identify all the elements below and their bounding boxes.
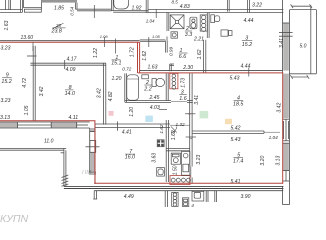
vent shaft icon room7 — [157, 140, 164, 147]
gray fill left exterior wall segments — [90, 128, 94, 172]
radiator under window left wall — [90, 141, 96, 153]
bottom strip piers — [205, 191, 207, 202]
wall under bath double — [111, 9, 148, 11]
wall room3 bottom right — [187, 100, 193, 102]
svg-text:11.0: 11.0 — [44, 138, 54, 144]
svg-text:4.41: 4.41 — [122, 129, 132, 135]
cabinet below strip — [182, 198, 188, 207]
kitchen sink room7 — [157, 168, 165, 177]
wall bottom strip line — [94, 190, 283, 192]
room label underlines — [2, 23, 252, 157]
red right boundary — [282, 73, 284, 184]
svg-text:1.6: 1.6 — [179, 96, 186, 102]
wall room9-room8 divider — [32, 46, 34, 121]
red shaft box kitchen — [170, 176, 190, 185]
svg-text:3.13: 3.13 — [0, 115, 10, 121]
svg-text:1.06: 1.06 — [100, 34, 109, 39]
washer neighbor — [171, 32, 177, 38]
svg-text:3.41: 3.41 — [194, 95, 200, 105]
towel coil neighbor — [200, 15, 207, 31]
shower tray neighbor — [170, 15, 184, 29]
svg-text:2.45: 2.45 — [149, 95, 160, 101]
svg-text:5.42: 5.42 — [231, 125, 241, 131]
balcony hatch marks — [62, 175, 69, 178]
svg-text:3.13: 3.13 — [276, 156, 282, 166]
svg-text:3.42: 3.42 — [277, 103, 283, 113]
svg-text:1.32: 1.32 — [176, 122, 186, 127]
left wall window sills — [90, 131, 95, 133]
wall above-unit WC top black — [140, 39, 166, 41]
svg-text:14.0: 14.0 — [65, 91, 75, 97]
svg-text:4: 4 — [191, 203, 194, 208]
svg-text:2.2: 2.2 — [143, 87, 151, 93]
wall neighbor bathroom left vertical with door gap — [166, 13, 168, 32]
wall WC left — [124, 73, 126, 102]
toilet neighbor right — [211, 15, 215, 23]
wall neighbor bathroom top double — [148, 8, 283, 10]
wall right of bath pair — [145, 0, 147, 13]
coil in red shaft — [172, 74, 176, 78]
svg-text:1.05: 1.05 — [24, 105, 30, 115]
svg-text:4.82: 4.82 — [108, 91, 114, 101]
bottom strip left room walls — [93, 191, 95, 199]
black companion lines of boundary — [0, 41, 283, 191]
svg-text:2.21: 2.21 — [193, 37, 204, 43]
svg-text:0.72: 0.72 — [122, 66, 132, 71]
wall neighbor floor double line — [0, 9, 22, 11]
svg-text:1.92: 1.92 — [132, 5, 142, 11]
svg-text:1.04: 1.04 — [269, 135, 279, 140]
left exterior wall outer edge — [89, 128, 91, 172]
svg-text:4.83: 4.83 — [180, 4, 190, 10]
red left vertical room7 — [94, 121, 96, 184]
svg-text:1.62: 1.62 — [159, 124, 164, 134]
svg-text:8.5: 8.5 — [172, 0, 179, 5]
wall top-left boundary black — [0, 40, 140, 42]
svg-text:1.62: 1.62 — [197, 49, 203, 59]
gray fill bottom band segments — [0, 122, 77, 127]
wall neighbor vertical pair — [8, 0, 10, 10]
svg-text:15.2: 15.2 — [242, 42, 252, 48]
wall niche right edge pair — [75, 3, 77, 10]
svg-text:1.73: 1.73 — [181, 78, 187, 88]
svg-text:3.20: 3.20 — [260, 156, 266, 166]
svg-text:4.17: 4.17 — [67, 57, 77, 63]
wall rooms 4-5 left long — [189, 73, 191, 166]
wall WC-room3 bottom — [125, 100, 171, 102]
colored furniture squares — [109, 111, 114, 116]
door opening room6 thin line — [170, 124, 190, 126]
wall neighbor pier top — [226, 0, 228, 12]
svg-text:КУПN: КУПN — [0, 213, 29, 225]
red apartment boundary — [0, 42, 283, 184]
svg-text:3.3: 3.3 — [185, 32, 192, 38]
sink neighbor — [190, 17, 197, 29]
bathtub neighbor top — [114, 0, 129, 9]
wall hall bottom / room7 top — [95, 123, 170, 125]
svg-text:5.41: 5.41 — [231, 179, 241, 185]
dimension ticks — [33, 5, 249, 137]
svg-text:1.62: 1.62 — [171, 130, 177, 140]
balcony left top edge — [0, 147, 66, 149]
left exterior wall inner edge room7 — [94, 124, 96, 184]
tick on divider — [27, 55, 37, 57]
wall neighbor box edge — [22, 0, 24, 8]
svg-text:15.2: 15.2 — [1, 79, 11, 85]
tick on room7 top wall — [117, 122, 119, 131]
right exterior wall edges — [282, 0, 284, 73]
svg-text:15.1: 15.1 — [111, 61, 121, 67]
red vertical jog pair — [137, 42, 139, 73]
svg-text:3.42: 3.42 — [39, 86, 45, 96]
svg-text:4.09: 4.09 — [66, 67, 76, 73]
wall room4-room5 divider — [192, 130, 264, 132]
svg-text:1.72: 1.72 — [130, 47, 136, 57]
svg-text:4.72: 4.72 — [22, 78, 28, 88]
svg-text:4.11: 4.11 — [69, 115, 79, 121]
wall pier above-unit — [164, 41, 166, 53]
svg-text:1.05: 1.05 — [152, 34, 161, 39]
svg-text:4.44: 4.44 — [241, 64, 251, 70]
svg-text:5.0: 5.0 — [300, 44, 307, 50]
svg-text:23.8: 23.8 — [51, 29, 62, 35]
red bottom boundary — [94, 182, 283, 184]
kitchen washer — [171, 153, 180, 164]
red top-left boundary — [0, 41, 140, 43]
svg-text:4.03: 4.03 — [150, 105, 160, 111]
wall WC right — [165, 73, 167, 101]
sink below strip — [192, 191, 204, 201]
red top-right boundary — [138, 72, 284, 74]
wall neighbor pier top right — [247, 0, 249, 13]
door room5 thin — [264, 131, 280, 133]
balcony left right edge — [63, 148, 65, 186]
balcony right top outline — [290, 9, 317, 11]
svg-text:6.6: 6.6 — [179, 54, 186, 60]
svg-text:1.20: 1.20 — [112, 76, 122, 82]
gray fill right exterior wall segments — [283, 23, 289, 171]
svg-text:3.23: 3.23 — [1, 46, 11, 52]
svg-text:5.43: 5.43 — [231, 137, 241, 143]
svg-text:3.90: 3.90 — [241, 194, 251, 200]
svg-text:1.63: 1.63 — [4, 20, 10, 30]
wall under niche double — [76, 8, 112, 10]
svg-text:1.20: 1.20 — [129, 107, 135, 117]
kitchen column stove — [182, 151, 190, 175]
svg-text:5.43: 5.43 — [230, 75, 240, 81]
door room3 thin — [171, 101, 187, 103]
right wall window sills — [283, 118, 290, 120]
red dash on wall marker — [188, 113, 191, 115]
wall room8 top — [30, 62, 106, 64]
svg-text:18.5: 18.5 — [233, 101, 243, 107]
svg-text:3.22: 3.22 — [252, 2, 262, 8]
red left-bottom boundary rooms 9-8 — [0, 120, 95, 122]
wall niche left edge — [41, 0, 43, 9]
svg-text:3.41: 3.41 — [279, 38, 285, 48]
strikethrough room 38 — [53, 27, 66, 29]
wall bottom boundary black pair — [64, 185, 284, 187]
kitchen boxes neighbor — [221, 30, 228, 36]
bottom band window mid lines — [18, 124, 52, 126]
svg-text:4.49: 4.49 — [124, 194, 134, 200]
svg-text:13.60: 13.60 — [21, 35, 34, 41]
bath subject WC — [127, 75, 139, 100]
right wall column below apartment — [282, 186, 284, 204]
bottom band edges rooms 9-8 — [0, 121, 90, 123]
svg-text:3.63: 3.63 — [152, 153, 158, 163]
wall top-right boundary black — [140, 70, 283, 72]
coil in bottom red shaft — [171, 178, 175, 182]
door gap room6 right wall — [190, 138, 192, 140]
svg-text:1.50: 1.50 — [172, 165, 178, 175]
wall room8 right — [103, 63, 105, 124]
wall top-left neighbor vertical thin — [5, 0, 7, 10]
rotated dimension texts — [4, 6, 285, 175]
svg-text:3.42: 3.42 — [96, 88, 102, 98]
svg-text:4.44: 4.44 — [244, 18, 254, 24]
window sill rect neighbor — [24, 9, 41, 12]
wall room6 bottom — [166, 148, 190, 150]
room number labels — [1, 23, 252, 164]
svg-text:2.30: 2.30 — [182, 65, 193, 71]
wall L above-unit — [169, 64, 171, 71]
svg-text:0.54: 0.54 — [70, 6, 75, 15]
coil below strip — [172, 192, 178, 206]
wall neighbor vertical pier — [20, 0, 22, 12]
door arc room6 — [171, 127, 177, 133]
wall above-unit hall right pair — [203, 40, 205, 73]
svg-text:1.63: 1.63 — [148, 64, 158, 70]
tick on room8 top wall — [64, 60, 66, 69]
left wall horizontal tick — [86, 146, 100, 148]
svg-text:3.23: 3.23 — [1, 98, 11, 104]
left wall balcony door sill — [89, 171, 96, 173]
svg-text:1.22: 1.22 — [93, 48, 99, 58]
svg-text:3.23: 3.23 — [196, 155, 202, 165]
wall room7 right / room6 left — [165, 120, 167, 182]
balcony corner bracket — [61, 152, 64, 154]
wall pier near bath — [110, 0, 112, 11]
svg-text:17.4: 17.4 — [233, 158, 243, 164]
svg-text:ПМ: ПМ — [82, 170, 91, 176]
svg-text:0.99: 0.99 — [168, 46, 173, 56]
toilet subject WC — [142, 75, 149, 79]
svg-text:1.85: 1.85 — [54, 6, 64, 12]
gray wall fill top bar — [42, 0, 78, 3]
svg-text:1.04: 1.04 — [146, 18, 155, 23]
svg-text:16.0: 16.0 — [125, 155, 135, 161]
right wall ticks — [279, 32, 293, 34]
svg-text:1.62: 1.62 — [142, 51, 148, 61]
fixtures — [114, 0, 232, 206]
red shaft box room3 — [170, 73, 178, 88]
wall above-unit bathroom right pair — [206, 13, 208, 39]
